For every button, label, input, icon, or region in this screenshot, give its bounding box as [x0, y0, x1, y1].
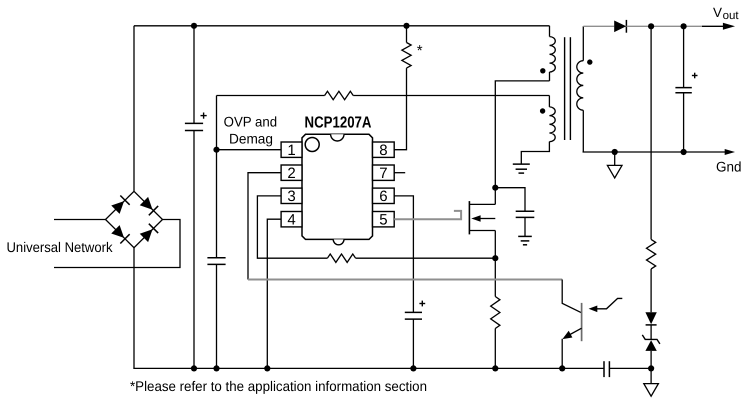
wire pin 7 stub — [394, 172, 405, 174]
wire left rail down to bridge — [133, 26, 135, 192]
ground secondary-return triangle — [644, 384, 659, 397]
capacitor C6 Y coupling (horizontal) — [603, 361, 605, 377]
wire AC input upper — [54, 219, 106, 221]
Q1 body arrow head — [471, 215, 480, 222]
diode D6 (pointing down) — [645, 312, 656, 324]
wire top rail into primary — [549, 26, 551, 37]
wire OVP node vertical upper — [216, 96, 218, 258]
wire secondary bottom — [582, 110, 585, 152]
capacitor C2 filter — [207, 257, 225, 259]
wire Q1 drain to primary bottom — [495, 81, 549, 204]
opto emitter lead — [565, 328, 582, 337]
diode bridge D1 (upper-left, pointing to + top) — [111, 201, 124, 214]
diode bridge D4 (lower-right, pointing to right) — [140, 229, 153, 242]
wire output cap bottom — [683, 93, 685, 152]
pin 8 box — [373, 142, 395, 157]
svg-text:OVP and: OVP and — [224, 113, 278, 129]
transistor Q1 gate bar — [468, 201, 470, 234]
node primary phase dot — [540, 68, 545, 73]
node C2 to ground rail — [213, 365, 219, 371]
wire diode to Vout arrow (gray) — [626, 25, 702, 27]
wire pin 5 driver (gray) — [394, 211, 461, 219]
node output gnd junction 1 — [612, 149, 618, 155]
node R4 at ground rail — [492, 365, 498, 371]
node Q1 drain junction — [492, 185, 498, 191]
wire snubber branch — [495, 188, 525, 212]
resistor R2 demag series — [325, 91, 354, 99]
wire output ground rail — [583, 151, 727, 153]
zener diode Z1 bar — [642, 335, 660, 344]
wire R4 to ground rail — [494, 329, 496, 369]
node output gnd junction 2 — [681, 149, 687, 155]
wire Vout arrow shaft — [702, 25, 726, 27]
wire R3 to MOSFET source node — [356, 257, 496, 259]
wire pin 2 feedback — [248, 173, 281, 280]
wire secondary top — [582, 26, 584, 60]
transformer core line 2 — [569, 37, 571, 140]
svg-text:6: 6 — [379, 188, 387, 205]
U1 pin-1 marker circle — [305, 138, 319, 152]
wire Q1 source down — [494, 231, 496, 297]
wire below C2 to ground rail — [216, 264, 218, 368]
pin 5 box — [373, 212, 395, 227]
wire aux top run to resistor — [217, 95, 325, 97]
wire AC input lower — [54, 220, 180, 268]
capacitor C1 bulk (polarized) — [185, 122, 203, 124]
wire resistor R2 to aux winding — [353, 95, 549, 97]
wire R1 to top rail — [406, 26, 408, 43]
wire stem to output ground triangle — [614, 152, 616, 165]
wire secondary to diode (gray) — [583, 25, 614, 27]
wire right chain from Vout node — [650, 26, 652, 239]
transformer core line 1 — [564, 37, 566, 140]
capacitor C5 output (polarized) — [675, 87, 691, 89]
svg-text:3: 3 — [287, 188, 295, 205]
wire between D6 and zener — [650, 325, 652, 340]
node secondary phase dot — [587, 59, 592, 64]
wire aux winding top — [548, 96, 550, 107]
Q1 source lead — [469, 230, 495, 232]
resistor R1 startup (*) — [402, 43, 411, 69]
wire C4 to earth — [524, 217, 526, 236]
wire aux bottom to earth — [521, 142, 549, 165]
svg-text:4: 4 — [287, 212, 295, 229]
resistor R3 current sense filter — [327, 254, 355, 262]
wire pin 1 to OVP node — [217, 149, 282, 151]
ground earth below C4 — [518, 235, 532, 237]
node aux phase dot — [540, 108, 545, 113]
label C1 plus — [201, 115, 207, 117]
wire bridge bottom to ground rail — [133, 248, 135, 369]
pin 1 box — [281, 142, 302, 157]
capacitor C4 snubber — [516, 210, 535, 212]
svg-text:V: V — [713, 5, 722, 20]
svg-text:*: * — [417, 43, 423, 60]
wire bottom rail right of coupling cap — [609, 367, 651, 369]
wire pin 4 ground — [267, 219, 281, 368]
node pin 4 at ground rail — [264, 365, 270, 371]
opto light arrow — [597, 298, 623, 308]
ground output triangle — [607, 165, 622, 178]
node junction top rail to startup resistor — [403, 23, 409, 29]
inductor secondary winding — [577, 61, 583, 111]
inductor primary winding — [550, 37, 556, 72]
wire output cap top — [683, 26, 685, 87]
wire pin 3 current sense — [257, 196, 327, 258]
wire bottom ground rail — [133, 367, 604, 369]
label C3 plus — [419, 303, 425, 305]
wire opto emitter to ground rail — [561, 339, 563, 369]
node opto emitter at ground rail — [559, 365, 565, 371]
wire bulk cap bottom — [193, 131, 195, 369]
pin 3 box — [281, 188, 302, 203]
svg-text:1: 1 — [287, 142, 295, 159]
wire top B+ rail — [134, 25, 550, 27]
wire bulk cap top — [193, 26, 195, 124]
zener diode Z1 triangle (pointing up) — [645, 340, 656, 351]
transistor opto base bar — [581, 303, 583, 341]
resistor R4 sense — [491, 297, 500, 329]
ground earth below aux — [513, 163, 530, 165]
svg-text:Universal Network: Universal Network — [7, 239, 114, 255]
wire C3 to ground rail — [412, 319, 414, 368]
opto light arrow head — [589, 306, 598, 313]
pin 4 box — [281, 212, 302, 227]
bridge rectifier outline — [106, 191, 163, 247]
node bulk cap to ground rail — [191, 365, 197, 371]
node source sense junction — [492, 255, 498, 261]
svg-text:*Please refer to the applicati: *Please refer to the application informa… — [130, 378, 427, 394]
node junction top rail to bulk cap — [191, 23, 197, 29]
svg-text:out: out — [723, 10, 740, 22]
node OVP junction at pin 1 wire — [213, 147, 219, 153]
capacitor C3 Vcc (polarized) — [405, 311, 422, 313]
Vout arrow head — [723, 23, 735, 30]
wire opto collector — [562, 280, 581, 313]
node output top junction 2 — [681, 23, 687, 29]
svg-text:NCP1207A: NCP1207A — [305, 114, 372, 131]
op-amp U1 NCP1207A body — [302, 134, 373, 239]
svg-text:Demag: Demag — [229, 130, 273, 146]
pin 6 box — [373, 188, 395, 203]
Gnd arrow head — [725, 149, 735, 155]
diode D5 output rectifier — [614, 21, 626, 33]
Q1 body arrow line — [480, 218, 496, 220]
svg-text:2: 2 — [287, 165, 295, 182]
svg-text:8: 8 — [379, 142, 387, 159]
opto emitter arrow — [562, 331, 572, 339]
U1 bottom bump — [333, 239, 344, 244]
wire R5 to diode — [650, 269, 652, 312]
diode bridge D3 (lower-left, pointing down) — [111, 225, 124, 238]
wire feedback FB (gray) — [248, 279, 562, 281]
node C3 at ground rail — [410, 365, 416, 371]
Q1 drain lead — [469, 203, 495, 205]
svg-text:Gnd: Gnd — [716, 159, 742, 175]
wire pin 8 to startup resistor — [394, 68, 406, 150]
U1 top notch — [331, 134, 344, 141]
resistor R5 bias — [647, 239, 656, 269]
inductor auxiliary winding — [549, 107, 555, 142]
diode bridge D2 (upper-right, pointing to right) — [140, 197, 153, 210]
node output top junction 1 — [648, 23, 654, 29]
wire zener to ground node — [650, 351, 652, 369]
wire primary bottom — [549, 72, 551, 81]
label C5 plus — [692, 75, 698, 77]
pin 2 box — [281, 165, 302, 180]
wire stem to secondary ground — [650, 368, 652, 383]
wire pin 6 Vcc — [394, 196, 413, 313]
svg-text:5: 5 — [379, 212, 387, 229]
node right chain at bottom — [648, 365, 654, 371]
pin 7 box — [373, 165, 395, 180]
svg-text:7: 7 — [379, 165, 387, 182]
